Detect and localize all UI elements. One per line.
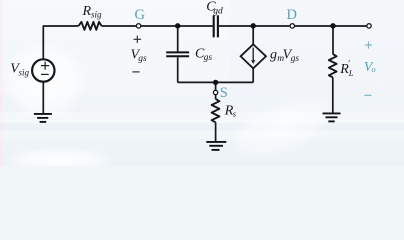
svg-text:D: D — [286, 7, 296, 23]
svg-text:g: g — [270, 48, 277, 63]
svg-text:gs: gs — [291, 54, 300, 64]
svg-text:G: G — [135, 7, 146, 23]
svg-text:gs: gs — [138, 54, 147, 64]
svg-text:gs: gs — [204, 53, 213, 63]
svg-text:S: S — [220, 85, 228, 101]
svg-text:o: o — [371, 64, 375, 74]
svg-text:sig: sig — [19, 67, 30, 77]
svg-text:′: ′ — [348, 58, 350, 68]
svg-text:R: R — [82, 4, 92, 19]
svg-text:L: L — [348, 68, 354, 78]
svg-text:gd: gd — [213, 6, 223, 16]
svg-text:sig: sig — [91, 10, 102, 20]
